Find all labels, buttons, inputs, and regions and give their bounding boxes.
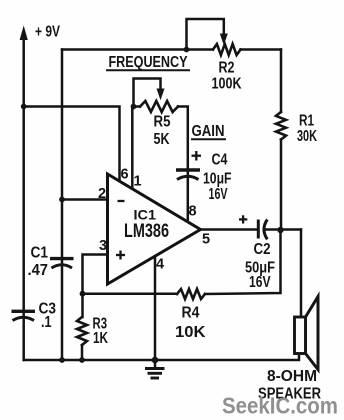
svg-text:R5: R5 xyxy=(154,114,171,131)
svg-text:8: 8 xyxy=(189,204,197,220)
svg-text:16V: 16V xyxy=(209,186,228,203)
svg-text:1: 1 xyxy=(134,174,142,190)
svg-text:R4: R4 xyxy=(182,305,200,322)
svg-text:SeekIC.com: SeekIC.com xyxy=(222,393,338,419)
svg-text:IC1: IC1 xyxy=(134,207,157,223)
svg-text:C1: C1 xyxy=(31,244,49,261)
svg-text:R2: R2 xyxy=(219,60,235,77)
svg-text:.47: .47 xyxy=(28,262,49,279)
svg-text:16V: 16V xyxy=(249,274,271,291)
svg-text:10μF: 10μF xyxy=(203,170,232,187)
svg-text:+ 9V: + 9V xyxy=(35,24,60,41)
svg-text:4: 4 xyxy=(156,257,164,273)
svg-text:1K: 1K xyxy=(93,330,108,347)
svg-text:FREQUENCY: FREQUENCY xyxy=(109,54,188,71)
svg-text:C4: C4 xyxy=(212,152,228,169)
svg-text:GAIN: GAIN xyxy=(192,123,225,140)
svg-text:30K: 30K xyxy=(297,128,317,145)
svg-text:3: 3 xyxy=(99,238,107,254)
svg-text:6: 6 xyxy=(121,166,129,182)
svg-text:C2: C2 xyxy=(254,241,271,258)
svg-text:10K: 10K xyxy=(175,324,206,341)
svg-text:LM386: LM386 xyxy=(124,221,169,242)
svg-text:2: 2 xyxy=(98,186,106,202)
svg-text:5K: 5K xyxy=(154,131,170,148)
svg-text:R1: R1 xyxy=(299,113,314,130)
svg-text:5: 5 xyxy=(202,231,210,247)
svg-text:8-OHM: 8-OHM xyxy=(267,368,317,385)
svg-text:100K: 100K xyxy=(212,75,242,92)
svg-text:.1: .1 xyxy=(41,314,52,331)
